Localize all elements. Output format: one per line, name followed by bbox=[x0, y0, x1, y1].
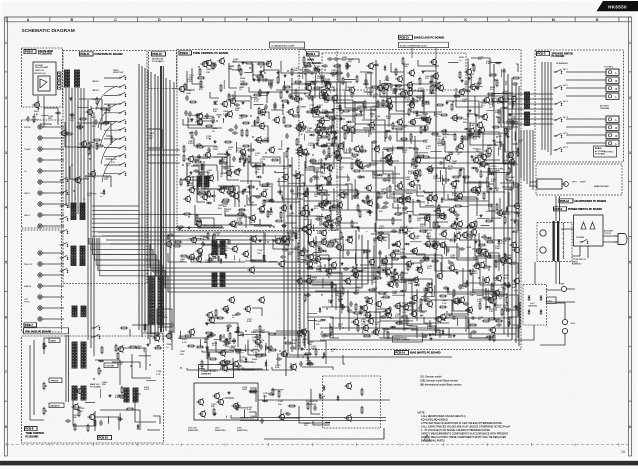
capacitor bbox=[475, 167, 478, 173]
capacitor bbox=[170, 322, 173, 328]
resistor bbox=[220, 84, 222, 92]
transistor bbox=[310, 106, 317, 114]
ground bbox=[460, 79, 463, 82]
resistor bbox=[508, 167, 510, 175]
svg-text:Q474: Q474 bbox=[373, 94, 379, 96]
capacitor bbox=[193, 169, 199, 172]
wire bbox=[183, 119, 202, 125]
node bbox=[284, 337, 285, 338]
capacitor bbox=[273, 104, 276, 110]
capacitor bbox=[309, 177, 312, 183]
RCA jack J1 bbox=[38, 125, 45, 129]
transistor bbox=[449, 222, 456, 230]
svg-text:BIAS/CLASS PC BOARD: BIAS/CLASS PC BOARD bbox=[414, 35, 444, 39]
ground bbox=[455, 217, 458, 220]
capacitor bbox=[511, 120, 514, 126]
capacitor bbox=[391, 229, 397, 232]
wire bbox=[473, 268, 496, 292]
wire bbox=[251, 97, 258, 99]
node bbox=[309, 266, 310, 267]
svg-text:0.022: 0.022 bbox=[188, 143, 194, 145]
transistor Q125 bbox=[345, 236, 352, 244]
transistor bbox=[248, 214, 255, 222]
wire bbox=[282, 197, 284, 202]
RCA jack J3 bbox=[38, 147, 45, 151]
wire bbox=[308, 166, 313, 168]
wire bbox=[65, 122, 94, 147]
resistor bbox=[328, 117, 336, 119]
wire bbox=[486, 210, 496, 212]
capacitor bbox=[327, 57, 333, 60]
transistor bbox=[330, 94, 337, 102]
wire bbox=[501, 263, 518, 274]
wire bbox=[356, 314, 358, 319]
connector CN23 bbox=[197, 176, 202, 187]
capacitor bbox=[382, 205, 388, 208]
wire bbox=[363, 127, 374, 129]
wire bbox=[77, 107, 88, 109]
transistor Q119 bbox=[471, 156, 478, 164]
RCA jack J9 bbox=[38, 213, 45, 217]
capacitor bbox=[374, 172, 377, 178]
diode bbox=[424, 101, 430, 104]
transistor bbox=[304, 84, 311, 92]
svg-text:Q580: Q580 bbox=[424, 298, 430, 300]
node bbox=[324, 69, 325, 70]
ground bbox=[513, 220, 516, 223]
svg-text:R153: R153 bbox=[292, 340, 298, 342]
capacitor bbox=[507, 321, 510, 327]
wire bbox=[383, 148, 417, 160]
capacitor bbox=[465, 308, 471, 311]
resistor bbox=[400, 138, 408, 140]
resistor bbox=[183, 145, 185, 153]
resistor bbox=[487, 93, 495, 95]
svg-text:TH-01: TH-01 bbox=[570, 323, 575, 325]
transistor Q118 bbox=[443, 154, 450, 162]
transistor bbox=[293, 172, 300, 180]
wire bbox=[498, 147, 500, 156]
diode bbox=[331, 223, 334, 229]
wire bbox=[467, 246, 472, 248]
svg-text:2.2K: 2.2K bbox=[379, 228, 384, 230]
wire bbox=[286, 216, 320, 226]
resistor bbox=[512, 77, 520, 79]
wire bbox=[261, 112, 269, 119]
PCB-8 tone control board bbox=[177, 50, 337, 231]
resistor bbox=[438, 204, 440, 212]
capacitor bbox=[259, 210, 265, 213]
wire bbox=[336, 225, 340, 227]
resistor bbox=[377, 237, 385, 239]
svg-text:R508: R508 bbox=[240, 78, 246, 80]
diode bbox=[98, 360, 104, 363]
resistor bbox=[408, 302, 416, 304]
node bbox=[300, 69, 301, 70]
transistor bbox=[484, 147, 491, 155]
capacitor bbox=[389, 83, 392, 89]
transistor bbox=[361, 324, 368, 332]
wire bbox=[196, 220, 203, 222]
node bbox=[356, 109, 357, 110]
svg-text:100K: 100K bbox=[213, 104, 219, 106]
wire bbox=[436, 215, 446, 217]
capacitor bbox=[512, 160, 515, 166]
wire bbox=[453, 232, 455, 243]
transistor bbox=[301, 204, 308, 212]
svg-text:R884: R884 bbox=[212, 128, 218, 130]
RCA jack J8 bbox=[38, 202, 45, 206]
wire bbox=[410, 140, 412, 144]
svg-text:IDLE/MUTE: IDLE/MUTE bbox=[306, 401, 318, 403]
capacitor bbox=[188, 111, 191, 117]
node bbox=[321, 294, 322, 295]
svg-text:PC BOARD: PC BOARD bbox=[26, 435, 39, 438]
resistor bbox=[377, 191, 379, 199]
ground bbox=[365, 300, 368, 303]
svg-text:C354: C354 bbox=[400, 249, 406, 251]
svg-text:R: R bbox=[616, 88, 618, 91]
ground bbox=[327, 258, 330, 261]
resistor bbox=[466, 226, 474, 228]
capacitor bbox=[315, 217, 321, 220]
speaker terminals system 1 bbox=[604, 67, 619, 100]
transistor bbox=[337, 191, 344, 199]
transistor bbox=[350, 267, 357, 275]
svg-text:TAPE 1: TAPE 1 bbox=[92, 80, 100, 83]
wire bbox=[322, 195, 341, 210]
capacitor bbox=[209, 332, 212, 338]
resistor bbox=[392, 217, 394, 225]
wire bbox=[446, 101, 479, 119]
resistor bbox=[88, 142, 90, 150]
transistor bbox=[323, 82, 330, 90]
capacitor bbox=[499, 141, 502, 147]
wire bbox=[491, 217, 501, 219]
svg-text:R612: R612 bbox=[34, 111, 40, 113]
resistor bbox=[196, 214, 198, 222]
wire bbox=[376, 309, 386, 315]
wire bbox=[371, 107, 392, 125]
svg-text:0.022: 0.022 bbox=[308, 145, 314, 147]
transistor bbox=[321, 220, 328, 228]
wire bbox=[400, 279, 432, 297]
capacitor bbox=[255, 195, 261, 198]
svg-text:C855: C855 bbox=[223, 111, 229, 113]
ground bbox=[474, 240, 477, 243]
resistor bbox=[242, 122, 250, 124]
capacitor bbox=[326, 180, 329, 186]
transistor Q107 bbox=[313, 126, 320, 134]
transistor bbox=[277, 413, 284, 421]
wires power section bbox=[556, 196, 614, 284]
resistor bbox=[204, 182, 206, 190]
resistor bbox=[306, 111, 314, 113]
transistor bbox=[438, 313, 445, 321]
diode bbox=[373, 64, 379, 67]
svg-text:PCB-10: PCB-10 bbox=[99, 436, 109, 440]
svg-text:100K: 100K bbox=[186, 93, 192, 95]
capacitor bbox=[236, 168, 242, 171]
wire bbox=[139, 355, 152, 357]
resistor bbox=[277, 76, 279, 84]
resistor bbox=[292, 115, 300, 117]
resistor bbox=[508, 318, 510, 326]
svg-text:100K: 100K bbox=[260, 332, 266, 334]
node bbox=[188, 216, 189, 217]
wire bbox=[429, 81, 441, 83]
node bbox=[256, 188, 257, 189]
resistor bbox=[261, 184, 269, 186]
svg-text:6.8K: 6.8K bbox=[247, 321, 252, 323]
switch contact speaker bbox=[554, 85, 563, 90]
diode bbox=[366, 211, 372, 214]
transistor Q200 bbox=[195, 112, 202, 120]
resistor bbox=[364, 100, 366, 108]
capacitor bbox=[69, 113, 75, 116]
resistor bbox=[462, 176, 470, 178]
wire bbox=[265, 360, 267, 371]
wire bbox=[255, 353, 263, 355]
PCB-13 dashed box bbox=[322, 53, 466, 90]
capacitor bbox=[467, 133, 473, 136]
diode bbox=[401, 256, 407, 259]
resistor bbox=[454, 133, 456, 141]
capacitor bbox=[308, 360, 311, 366]
wire bbox=[292, 157, 304, 175]
svg-text:6: 6 bbox=[5, 315, 7, 319]
wire bbox=[94, 417, 119, 430]
capacitor bbox=[263, 78, 269, 81]
capacitor bbox=[207, 147, 210, 153]
transistor Q117 bbox=[413, 156, 420, 164]
resistor bbox=[329, 240, 337, 242]
resistor bbox=[431, 75, 433, 83]
wire bbox=[465, 176, 487, 183]
resistor bbox=[93, 139, 101, 141]
resistor bbox=[294, 81, 302, 83]
svg-text:6.8K: 6.8K bbox=[327, 157, 332, 159]
svg-text:SYSTEM 2: SYSTEM 2 bbox=[604, 152, 613, 154]
wire bbox=[516, 309, 518, 315]
svg-text:G: G bbox=[289, 18, 292, 22]
resistor bbox=[363, 335, 371, 337]
transistor bbox=[372, 145, 379, 153]
ground bbox=[334, 155, 337, 158]
resistor bbox=[283, 116, 285, 124]
svg-text:PC BOARD: PC BOARD bbox=[491, 170, 501, 173]
wire bbox=[373, 171, 404, 178]
svg-text:C653: C653 bbox=[463, 119, 469, 121]
wire bbox=[192, 157, 222, 175]
resistor bbox=[286, 150, 288, 158]
wire bbox=[307, 312, 317, 314]
wire bbox=[392, 89, 404, 103]
ground bbox=[455, 271, 458, 274]
transistor Q106 bbox=[482, 96, 489, 104]
PCB-12 headphones label bbox=[559, 199, 606, 203]
transistor bbox=[324, 267, 331, 275]
ground bbox=[387, 283, 390, 286]
transistor bbox=[315, 129, 322, 137]
svg-text:HEADPHONES: HEADPHONES bbox=[594, 185, 609, 188]
transistor bbox=[183, 195, 190, 203]
svg-text:0.022: 0.022 bbox=[187, 81, 193, 83]
resistor bbox=[330, 326, 332, 334]
wire bbox=[394, 269, 419, 280]
wire bbox=[382, 258, 414, 264]
ground bbox=[281, 224, 284, 227]
resistor bbox=[491, 283, 493, 291]
wire bbox=[434, 326, 436, 336]
resistor bbox=[406, 317, 408, 325]
wire bbox=[424, 70, 435, 72]
wire bbox=[360, 72, 371, 97]
capacitor bbox=[479, 250, 482, 256]
connector CN11 bbox=[65, 70, 70, 87]
capacitor bbox=[489, 298, 492, 304]
wire bbox=[456, 88, 483, 107]
node bbox=[83, 198, 84, 199]
transistor bbox=[334, 154, 341, 162]
node bbox=[313, 83, 314, 84]
node bbox=[250, 115, 251, 116]
wire bbox=[417, 186, 424, 196]
transistor Q120 bbox=[335, 201, 342, 209]
volume pot bbox=[104, 363, 118, 368]
wire bbox=[320, 113, 334, 127]
wire bbox=[331, 273, 342, 288]
resistor bbox=[389, 158, 391, 166]
resistor bbox=[212, 62, 214, 70]
node bbox=[328, 194, 329, 195]
resistor bbox=[222, 199, 230, 201]
diode bbox=[315, 106, 321, 109]
RCA jack J14 bbox=[38, 284, 45, 288]
resistor bbox=[355, 189, 357, 197]
wire bbox=[217, 171, 219, 181]
transistor bbox=[482, 276, 489, 284]
wire bbox=[251, 180, 263, 196]
capacitor bbox=[184, 110, 187, 116]
transistor bbox=[319, 238, 326, 246]
wire bbox=[380, 312, 409, 321]
resistor bbox=[487, 185, 489, 193]
capacitor bbox=[322, 64, 328, 67]
resistor bbox=[78, 409, 80, 417]
capacitor bbox=[497, 109, 500, 115]
resistor bbox=[480, 170, 482, 178]
PCB-6 power switch label bbox=[554, 207, 603, 211]
transistor bbox=[431, 72, 438, 80]
node bbox=[279, 350, 280, 351]
resistor bbox=[449, 239, 457, 241]
capacitor bbox=[269, 199, 275, 202]
ground bbox=[225, 338, 228, 341]
node bbox=[71, 164, 72, 165]
wire bbox=[186, 164, 188, 176]
resistor bbox=[275, 220, 283, 222]
bundle below function bbox=[92, 206, 222, 236]
diode bbox=[310, 81, 316, 84]
capacitor bbox=[26, 116, 29, 122]
svg-text:2.2K: 2.2K bbox=[423, 142, 428, 144]
wire bbox=[475, 96, 485, 116]
wire bbox=[352, 227, 359, 232]
capacitor bbox=[346, 72, 349, 78]
svg-text:10K: 10K bbox=[225, 346, 229, 348]
wire bbox=[514, 132, 516, 141]
svg-text:4.7K: 4.7K bbox=[237, 150, 242, 152]
transistor bbox=[312, 108, 319, 116]
wire bbox=[204, 161, 212, 177]
transistor Q127 bbox=[407, 232, 414, 240]
svg-text:C180: C180 bbox=[225, 343, 231, 345]
resistor bbox=[466, 234, 474, 236]
resistor bbox=[342, 77, 344, 85]
svg-text:7: 7 bbox=[629, 370, 631, 374]
transistor Q134 bbox=[477, 261, 484, 269]
node bbox=[435, 88, 436, 89]
capacitor bbox=[285, 133, 288, 139]
wire bbox=[469, 205, 492, 222]
diode bbox=[489, 335, 492, 341]
node bbox=[452, 101, 453, 102]
node bbox=[264, 72, 265, 73]
svg-text:0.022: 0.022 bbox=[312, 112, 318, 114]
ground bbox=[300, 347, 303, 350]
resistor bbox=[304, 83, 312, 85]
svg-text:SPEAKERS: SPEAKERS bbox=[556, 62, 568, 65]
transistor bbox=[512, 277, 519, 285]
transistor bbox=[436, 84, 443, 92]
svg-text:2.2K: 2.2K bbox=[231, 348, 236, 350]
wire bbox=[516, 155, 519, 157]
RCA jack J2 bbox=[38, 136, 45, 140]
svg-text:3: 3 bbox=[629, 151, 631, 155]
transistor Q126 bbox=[375, 234, 382, 242]
model badge HK6550 bbox=[597, 1, 638, 11]
wire bbox=[461, 206, 469, 208]
monitor sweep wires bbox=[96, 86, 117, 182]
transistor Q136 bbox=[393, 302, 400, 310]
node bbox=[478, 277, 479, 278]
resistor bbox=[382, 99, 384, 107]
wire bbox=[304, 192, 339, 201]
wire bbox=[380, 80, 413, 85]
svg-text:Q267: Q267 bbox=[212, 258, 218, 260]
wire bbox=[344, 141, 353, 153]
capacitor bbox=[469, 234, 472, 240]
resistor bbox=[247, 149, 255, 151]
wire bbox=[433, 112, 435, 116]
wire bbox=[397, 131, 426, 141]
diode bbox=[320, 319, 326, 322]
transistor bbox=[329, 261, 336, 269]
transistor bbox=[224, 169, 231, 177]
headphone jack bbox=[530, 179, 609, 189]
node bbox=[216, 120, 217, 121]
wire bbox=[496, 293, 498, 300]
wire bbox=[367, 72, 373, 74]
diode bbox=[79, 124, 82, 130]
resistor bbox=[439, 295, 447, 297]
AC plug bbox=[604, 230, 627, 245]
capacitor bbox=[376, 203, 379, 209]
wire bbox=[284, 81, 286, 85]
wire bbox=[119, 413, 121, 422]
wire bbox=[70, 166, 89, 179]
